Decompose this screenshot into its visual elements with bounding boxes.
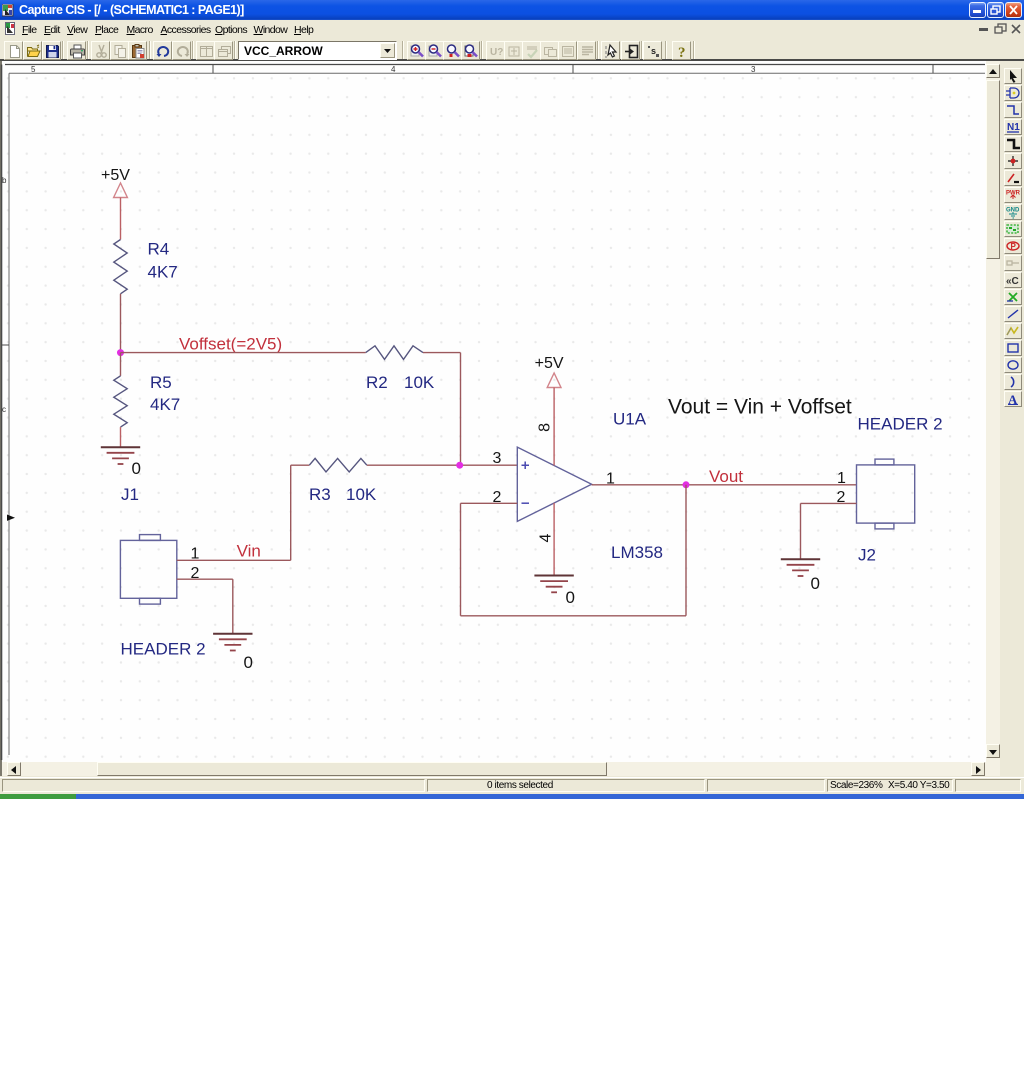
wire R5 to ground: [120, 427, 122, 447]
tool palette button: place off-page connector: [1004, 272, 1022, 288]
tool palette button: place bus: [1004, 136, 1022, 152]
wire J2 pin2 down to ground: [800, 503, 802, 559]
svg-text:R2: R2: [366, 373, 388, 392]
wire J1 pin2 stub: [177, 578, 233, 580]
svg-text:4K7: 4K7: [148, 263, 178, 282]
resistor R5: [114, 373, 180, 427]
vertical scrollbar thumb: [986, 80, 1000, 259]
svg-text:4: 4: [537, 533, 554, 542]
svg-text:3: 3: [493, 450, 502, 467]
tool palette button: place ellipse: [1004, 357, 1022, 373]
svg-text:«C: «C: [1006, 276, 1019, 287]
svg-text:4: 4: [391, 65, 396, 74]
svg-text:P: P: [1011, 242, 1017, 251]
wire op-amp pin2 stub: [461, 502, 518, 504]
svg-text:Vin: Vin: [237, 542, 261, 561]
ground 0 (under op-amp): [534, 576, 575, 608]
tool palette button: place rectangle: [1004, 340, 1022, 356]
svg-text:0: 0: [811, 574, 820, 593]
svg-text:5: 5: [31, 65, 36, 74]
svg-text:HEADER 2: HEADER 2: [121, 640, 206, 659]
wire R2 to corner: [423, 352, 461, 354]
horizontal scrollbar right arrow: [971, 762, 985, 776]
node C junction: [683, 481, 690, 488]
wire J1 pin2 down to ground: [232, 579, 234, 634]
svg-text:0: 0: [566, 588, 575, 607]
tool palette button: place polyline: [1004, 323, 1022, 339]
resistor R3: [309, 458, 377, 504]
tool palette button: place arc: [1004, 374, 1022, 390]
svg-text:8: 8: [537, 423, 554, 432]
horizontal scrollbar thumb: [97, 762, 607, 776]
wire op-amp output to J2 pin 1: [592, 484, 857, 486]
resistor R4: [114, 240, 178, 294]
svg-text:R3: R3: [309, 485, 331, 504]
svg-text:U1A: U1A: [613, 410, 647, 429]
connector J1 HEADER 2 body: [120, 535, 176, 605]
tool palette button: select part: [1004, 68, 1022, 84]
svg-text:0: 0: [244, 653, 253, 672]
wire R3 left lead: [291, 464, 310, 466]
svg-text:LM358: LM358: [611, 543, 663, 562]
wire +5V to pin 8: [553, 388, 555, 466]
power symbol +5V (op-amp): [535, 355, 564, 388]
svg-text:1: 1: [837, 470, 846, 487]
wire feedback left vertical: [460, 503, 462, 616]
svg-text:R5: R5: [150, 373, 172, 392]
tool palette button: place no connect: [1004, 289, 1022, 305]
wire R4 to node A: [120, 294, 122, 353]
svg-text:4K7: 4K7: [150, 395, 180, 414]
svg-text:+5V: +5V: [101, 167, 130, 184]
svg-text:b: b: [2, 176, 7, 185]
svg-text:R4: R4: [148, 240, 170, 259]
node B junction: [456, 462, 463, 469]
svg-text:A: A: [1008, 392, 1018, 406]
tool palette button: place bus entry: [1004, 170, 1022, 186]
node A junction: [117, 349, 124, 356]
page border top ruler strip: [5, 65, 985, 75]
power symbol +5V (left): [101, 167, 130, 198]
connector J2 HEADER 2 body: [857, 459, 915, 529]
tool palette button: place junction: [1004, 153, 1022, 169]
svg-text:J1: J1: [121, 485, 139, 504]
svg-text:J2: J2: [858, 546, 876, 565]
tool palette button: place hierarchical block: [1004, 221, 1022, 237]
tool palette button: place part: [1004, 85, 1022, 101]
svg-text:10K: 10K: [346, 485, 377, 504]
svg-text:Vout = Vin + Voffset: Vout = Vin + Voffset: [668, 396, 852, 419]
ground 0 (under R5): [101, 447, 141, 478]
wire J1 pin1 Vin run: [177, 559, 291, 561]
wire feedback bottom horizontal: [461, 615, 687, 617]
vertical scrollbar up arrow: [986, 64, 1000, 78]
svg-text:3: 3: [751, 65, 756, 74]
wire corner down to node B: [460, 353, 462, 466]
svg-text:0: 0: [132, 459, 141, 478]
tool palette button: place pin: [1004, 255, 1022, 271]
ground 0 (under J2): [781, 559, 820, 593]
svg-text:10K: 10K: [404, 373, 435, 392]
tool palette button: place port: [1004, 238, 1022, 254]
resistor R2: [366, 346, 435, 392]
wire node A to R5: [120, 353, 122, 376]
wire node A to R2: [121, 352, 366, 354]
wire feedback right vertical to node C: [685, 485, 687, 616]
wire Vin corner up to R3: [290, 465, 292, 560]
cursor arrow marker on left border: [7, 515, 15, 521]
tool palette button: place line: [1004, 306, 1022, 322]
vertical scrollbar down arrow: [986, 744, 1000, 758]
wire R3 to op-amp pin 3: [367, 464, 517, 466]
svg-text:HEADER 2: HEADER 2: [858, 415, 943, 434]
tool palette button: place net alias: [1004, 119, 1022, 135]
tool palette button: place text: [1004, 391, 1022, 407]
ground 0 (under J1): [213, 634, 253, 672]
horizontal scrollbar left arrow: [7, 762, 21, 776]
svg-text:Vout: Vout: [709, 467, 743, 486]
wire pin 4 to ground: [553, 503, 555, 576]
svg-text:+5V: +5V: [535, 355, 564, 372]
tool palette button: place ground: [1004, 204, 1022, 220]
tool palette button: place wire: [1004, 102, 1022, 118]
op-amp U1A body: [517, 447, 591, 521]
tool palette button: place power: [1004, 187, 1022, 203]
page border left ruler strip: [2, 65, 10, 761]
svg-text:c: c: [2, 405, 6, 414]
wire J2 pin2 stub: [801, 502, 857, 504]
wire VCC1 to R4: [120, 198, 122, 240]
svg-text:Voffset(=2V5): Voffset(=2V5): [179, 335, 282, 354]
